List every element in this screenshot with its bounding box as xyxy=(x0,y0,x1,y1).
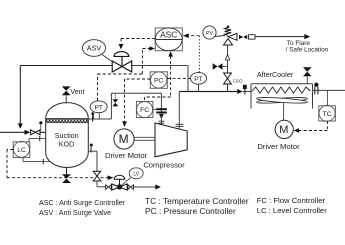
vessel drain valve (closed) xyxy=(62,167,71,183)
recycle riser xyxy=(187,66,189,92)
LV ball xyxy=(117,184,122,189)
TC to motor M2 signal (dashed) xyxy=(299,121,327,131)
flange pair left of LV xyxy=(106,185,112,190)
svg-text:Driver Motor: Driver Motor xyxy=(257,142,300,151)
vessel side drain nozzle xyxy=(88,147,97,153)
manual drain valve (open) xyxy=(93,171,101,181)
driver motor M1 xyxy=(114,129,134,149)
svg-text:ASV: ASV xyxy=(87,44,102,53)
drain down pipe xyxy=(96,151,98,171)
drain outlet line xyxy=(134,186,156,188)
arrow onto ASV actuator xyxy=(119,44,124,49)
svg-text:Vent: Vent xyxy=(70,88,84,96)
nozzle dot xyxy=(90,144,93,147)
spool piece xyxy=(249,35,256,39)
svg-text:KOD: KOD xyxy=(59,139,75,148)
feed inlet valve xyxy=(31,130,46,135)
aftercooler shell xyxy=(251,84,313,109)
fan stem xyxy=(283,102,285,120)
FC tap to orifice xyxy=(153,109,156,111)
svg-text:CSO: CSO xyxy=(233,79,243,84)
arrow into ASC left xyxy=(149,46,155,51)
cooler inlet spec square xyxy=(243,85,247,89)
cooler fan blades xyxy=(256,96,307,104)
discharge PT to ASC signal (dotted) xyxy=(188,36,199,73)
feed arrow xyxy=(25,130,31,135)
suction flange ticks xyxy=(158,114,164,125)
level valve LV xyxy=(112,175,127,190)
svg-text:LC: LC xyxy=(17,147,26,154)
suction arrow into compressor xyxy=(159,114,164,119)
relief valve PSV xyxy=(224,28,238,46)
label Suction KOD xyxy=(55,131,79,149)
svg-text:ASC : Anti Surge Controller: ASC : Anti Surge Controller xyxy=(39,199,126,207)
cooler vent valve (closed) xyxy=(303,67,312,83)
pressure controller PC xyxy=(150,72,167,89)
svg-text:FC: FC xyxy=(140,107,149,114)
temperature controller TC stem xyxy=(326,90,328,105)
svg-text:PV: PV xyxy=(206,31,213,37)
flange pair right of LV xyxy=(128,185,134,190)
check valve after PSV xyxy=(239,35,247,39)
LC upper tap xyxy=(29,136,46,142)
svg-text:M: M xyxy=(119,132,129,146)
svg-text:ASV : Anti Surge Valve: ASV : Anti Surge Valve xyxy=(39,209,111,217)
header arrow into cooler xyxy=(237,89,243,94)
suction PT nozzle tick xyxy=(92,115,94,121)
pressure transmitter PT discharge stem xyxy=(198,84,200,91)
svg-text:PC: PC xyxy=(154,78,164,85)
svg-text:FC : Flow Controller: FC : Flow Controller xyxy=(257,196,326,205)
drain pipe to LV xyxy=(97,181,106,187)
outlet tap dot xyxy=(314,83,318,87)
temperature controller TC xyxy=(319,105,336,121)
LV tag bubble xyxy=(122,168,144,186)
flow controller FC xyxy=(136,101,153,117)
arrow onto motor M2 xyxy=(294,128,300,133)
svg-text:ASC: ASC xyxy=(160,30,177,40)
feed valve vent dot xyxy=(39,121,42,130)
recycle return arrow xyxy=(18,123,23,128)
svg-text:M: M xyxy=(279,124,288,136)
feed line xyxy=(0,131,25,133)
flow marker triangle on riser xyxy=(225,55,229,60)
vent line xyxy=(65,95,67,103)
ASV tag bubble xyxy=(82,40,113,63)
LC lower tap xyxy=(23,158,51,165)
driver motor M1 shaft xyxy=(134,137,155,140)
flare arrow xyxy=(304,34,310,39)
outlet flange ticks xyxy=(315,87,318,95)
bleed valve stub (closed) xyxy=(213,63,228,69)
LC signal arrow xyxy=(108,175,114,180)
recycle line to ASV xyxy=(132,65,188,67)
svg-text:TC: TC xyxy=(323,111,332,118)
arrow into ASC right xyxy=(183,33,189,38)
anti surge valve ASV body xyxy=(112,52,132,72)
discharge riser xyxy=(176,92,184,130)
anti surge controller ASC xyxy=(155,28,182,51)
suction PT to ASC signal (dashed) xyxy=(98,49,150,101)
svg-text:PC : Pressure Controller: PC : Pressure Controller xyxy=(145,206,236,216)
PSV tag bubble PV xyxy=(203,26,225,39)
pressure transmitter PT discharge xyxy=(191,72,207,84)
svg-text:Compressor: Compressor xyxy=(143,160,185,169)
drain outlet arrow xyxy=(155,185,161,190)
suction gas outlet line xyxy=(88,93,161,119)
vent valve (closed) xyxy=(62,86,71,95)
CSO valve (open) xyxy=(224,73,232,84)
PC-PT signal (dashed) xyxy=(167,77,190,79)
discharge header xyxy=(179,91,238,93)
svg-text:TC : Temperature Controller: TC : Temperature Controller xyxy=(145,196,249,206)
driver motor M2 xyxy=(275,120,293,138)
suction stub valve (closed) xyxy=(112,93,118,106)
demister pad xyxy=(46,118,89,122)
flare line xyxy=(255,36,305,38)
svg-text:AfterCooler: AfterCooler xyxy=(257,70,294,79)
pressure transmitter PT suction legs xyxy=(94,113,100,119)
level controller LC xyxy=(13,141,30,157)
svg-text:PT: PT xyxy=(94,104,102,111)
arrow into ASC bottom xyxy=(168,51,173,56)
PC to motor signal (dashed) xyxy=(125,79,151,122)
cooler inlet tick xyxy=(244,89,246,94)
cooler coil xyxy=(252,87,311,93)
svg-text:LC : Level Controller: LC : Level Controller xyxy=(257,206,328,215)
svg-text:Driver Motor: Driver Motor xyxy=(105,151,148,160)
recycle line left run xyxy=(20,66,112,125)
FC/PC trunk to ASC (dashed) xyxy=(145,56,171,101)
svg-text:PT: PT xyxy=(194,76,202,83)
pressure transmitter PT suction xyxy=(90,101,107,113)
flare riser xyxy=(227,45,229,92)
LC to LV signal (dashed) xyxy=(7,150,108,178)
compressor body xyxy=(155,123,187,157)
svg-text:/ Safe Location: / Safe Location xyxy=(286,47,329,54)
ASC output to ASV (dashed) xyxy=(121,39,155,45)
suction PT tap dot xyxy=(91,112,94,115)
svg-text:LV: LV xyxy=(133,171,139,177)
flow orifice FE xyxy=(156,108,167,113)
vessel Suction KOD shell xyxy=(46,103,89,168)
arrow onto motor M1 xyxy=(122,121,127,127)
cooler outlet line xyxy=(313,89,345,91)
PSV spring top arrow xyxy=(226,25,230,28)
